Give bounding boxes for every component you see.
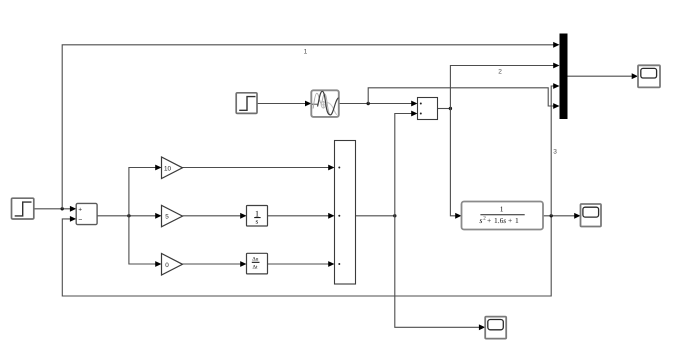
svg-text:1: 1 (515, 216, 519, 225)
junction dot at small mux output (449, 107, 452, 110)
wire segment 2: junction up and right to mux input 2 (450, 66, 554, 109)
svg-text:s: s (256, 218, 259, 226)
svg-text:Δt: Δt (253, 265, 258, 271)
junction dot at step2 branch (61, 207, 64, 210)
svg-text:+: + (508, 216, 512, 225)
svg-text:0: 0 (165, 262, 169, 269)
wire: junction down to bottom scope (395, 216, 480, 327)
light circle-plus mark (321, 101, 326, 109)
svg-text:1.6: 1.6 (494, 216, 504, 225)
step source block Step1 (top) (236, 93, 257, 114)
arrow into integrator (240, 213, 246, 219)
signal generator block (sine waves icon) (311, 90, 339, 117)
wire: transfer fcn output to right scope (543, 215, 575, 217)
wire segment 1: up left side and across top to mux input 1 (62, 45, 554, 209)
tall mux block (3 inputs) (335, 141, 356, 285)
wire: signal block output to small mux input 1 (339, 103, 417, 105)
wire: gain 0 output to derivative (183, 263, 246, 265)
icon axis segment (312, 103, 318, 105)
svg-text:2: 2 (498, 68, 502, 75)
wire: step1 output to signal block (257, 103, 310, 105)
wire: derivative output to tall mux input 3 (268, 263, 334, 265)
arrow into mux input 1 (553, 42, 559, 48)
junction dot at gain branch (127, 214, 130, 217)
wire: small mux output to junction (438, 108, 451, 110)
wire segment 3: junction up to mux input 3 (551, 86, 553, 216)
arrow into tall mux input 2 (328, 213, 334, 219)
light tail curve (328, 103, 338, 115)
wire: tall mux output to junction (356, 215, 395, 217)
svg-text:5: 5 (165, 214, 169, 221)
arrow into gain 10 (155, 165, 161, 171)
wire: step2 output to sum junction (34, 208, 75, 210)
gain block 0 (162, 254, 183, 276)
arrow into mux input 4 (553, 103, 559, 109)
scope block (top right) (638, 65, 660, 87)
wire: junction up to small mux input 2 (395, 114, 417, 216)
junction dot at tall mux output (393, 214, 396, 217)
arrow into bottom scope (479, 324, 485, 330)
light two-hump curve (313, 93, 330, 115)
arrow into tall mux input 3 (328, 261, 334, 267)
arrow into sum input 1 (70, 206, 76, 212)
arrow into tall mux input 1 (328, 165, 334, 171)
arrow into derivative (240, 261, 246, 267)
wire: sum output to gain branch junction and gain 5 (97, 215, 160, 217)
svg-text:10: 10 (164, 165, 172, 172)
big mux bar (4 inputs) (560, 34, 568, 120)
arrow into mux input 3 (553, 83, 559, 89)
wire: big mux output to top scope (568, 75, 633, 77)
wire: junction down and right into transfer fcn (450, 109, 455, 216)
svg-text:s: s (503, 216, 506, 225)
wire: signal branch up over to mux input 4 (368, 88, 553, 106)
wire: gain 10 output to tall mux input 1 (183, 167, 334, 169)
arrow into small mux input 2 (411, 111, 417, 117)
integrator block 1/s (247, 206, 268, 227)
small mux block (2 inputs) (418, 98, 438, 120)
wire: gain 5 output to integrator (183, 215, 246, 217)
gain block 5 (162, 205, 183, 227)
arrow into small mux input 1 (411, 101, 417, 107)
scope block (bottom) (485, 317, 506, 339)
svg-text:s: s (479, 216, 482, 225)
arrow into sum input 2 (70, 216, 76, 222)
sum block (+ -) (76, 203, 97, 224)
arrow into gain 5 (155, 213, 161, 219)
arrow into right scope (574, 213, 580, 219)
svg-text:1: 1 (500, 204, 504, 213)
svg-text:3: 3 (553, 149, 557, 156)
svg-text:Δu: Δu (252, 257, 258, 263)
wire: branch up to gain 10 (129, 168, 161, 216)
svg-text:+: + (78, 206, 82, 213)
arrow into mux input 2 (553, 63, 559, 69)
svg-text:1: 1 (304, 48, 308, 55)
wire: branch down to gain 0 (129, 216, 161, 264)
arrow into gain 0 (155, 261, 161, 267)
arrow into transfer fcn (455, 213, 461, 219)
svg-text:+: + (487, 216, 491, 225)
svg-text:−: − (78, 217, 82, 224)
wire: integrator output to tall mux input 2 (268, 215, 334, 217)
dark sine curve (318, 91, 339, 115)
transfer fcn block 1/(s^2+1.6s+1) (462, 202, 544, 230)
step source block Step2 (left) (12, 198, 34, 219)
derivative block du/dt (247, 253, 268, 274)
arrow into top scope (632, 73, 638, 79)
wire: feedback from transfer fcn output down, across bottom, up to sum input 2 (62, 216, 551, 296)
scope block (right) (581, 204, 602, 227)
gain block 10 (162, 157, 183, 179)
junction dot at signal output branch (367, 102, 370, 105)
arrow into signal block (305, 101, 311, 107)
junction dot at transfer fcn output (550, 214, 553, 217)
